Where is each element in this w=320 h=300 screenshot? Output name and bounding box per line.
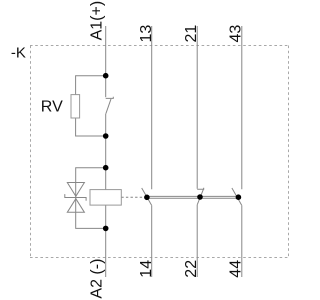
- svg-text:-K: -K: [11, 44, 26, 61]
- svg-text:13: 13: [138, 25, 155, 43]
- svg-text:43: 43: [228, 25, 245, 43]
- svg-text:21: 21: [183, 25, 200, 43]
- svg-text:A1(+): A1(+): [89, 1, 106, 41]
- svg-text:14: 14: [138, 260, 155, 278]
- svg-text:44: 44: [228, 260, 245, 278]
- svg-text:22: 22: [183, 260, 200, 278]
- svg-text:A2 (-): A2 (-): [89, 259, 106, 299]
- svg-text:RV: RV: [41, 99, 63, 116]
